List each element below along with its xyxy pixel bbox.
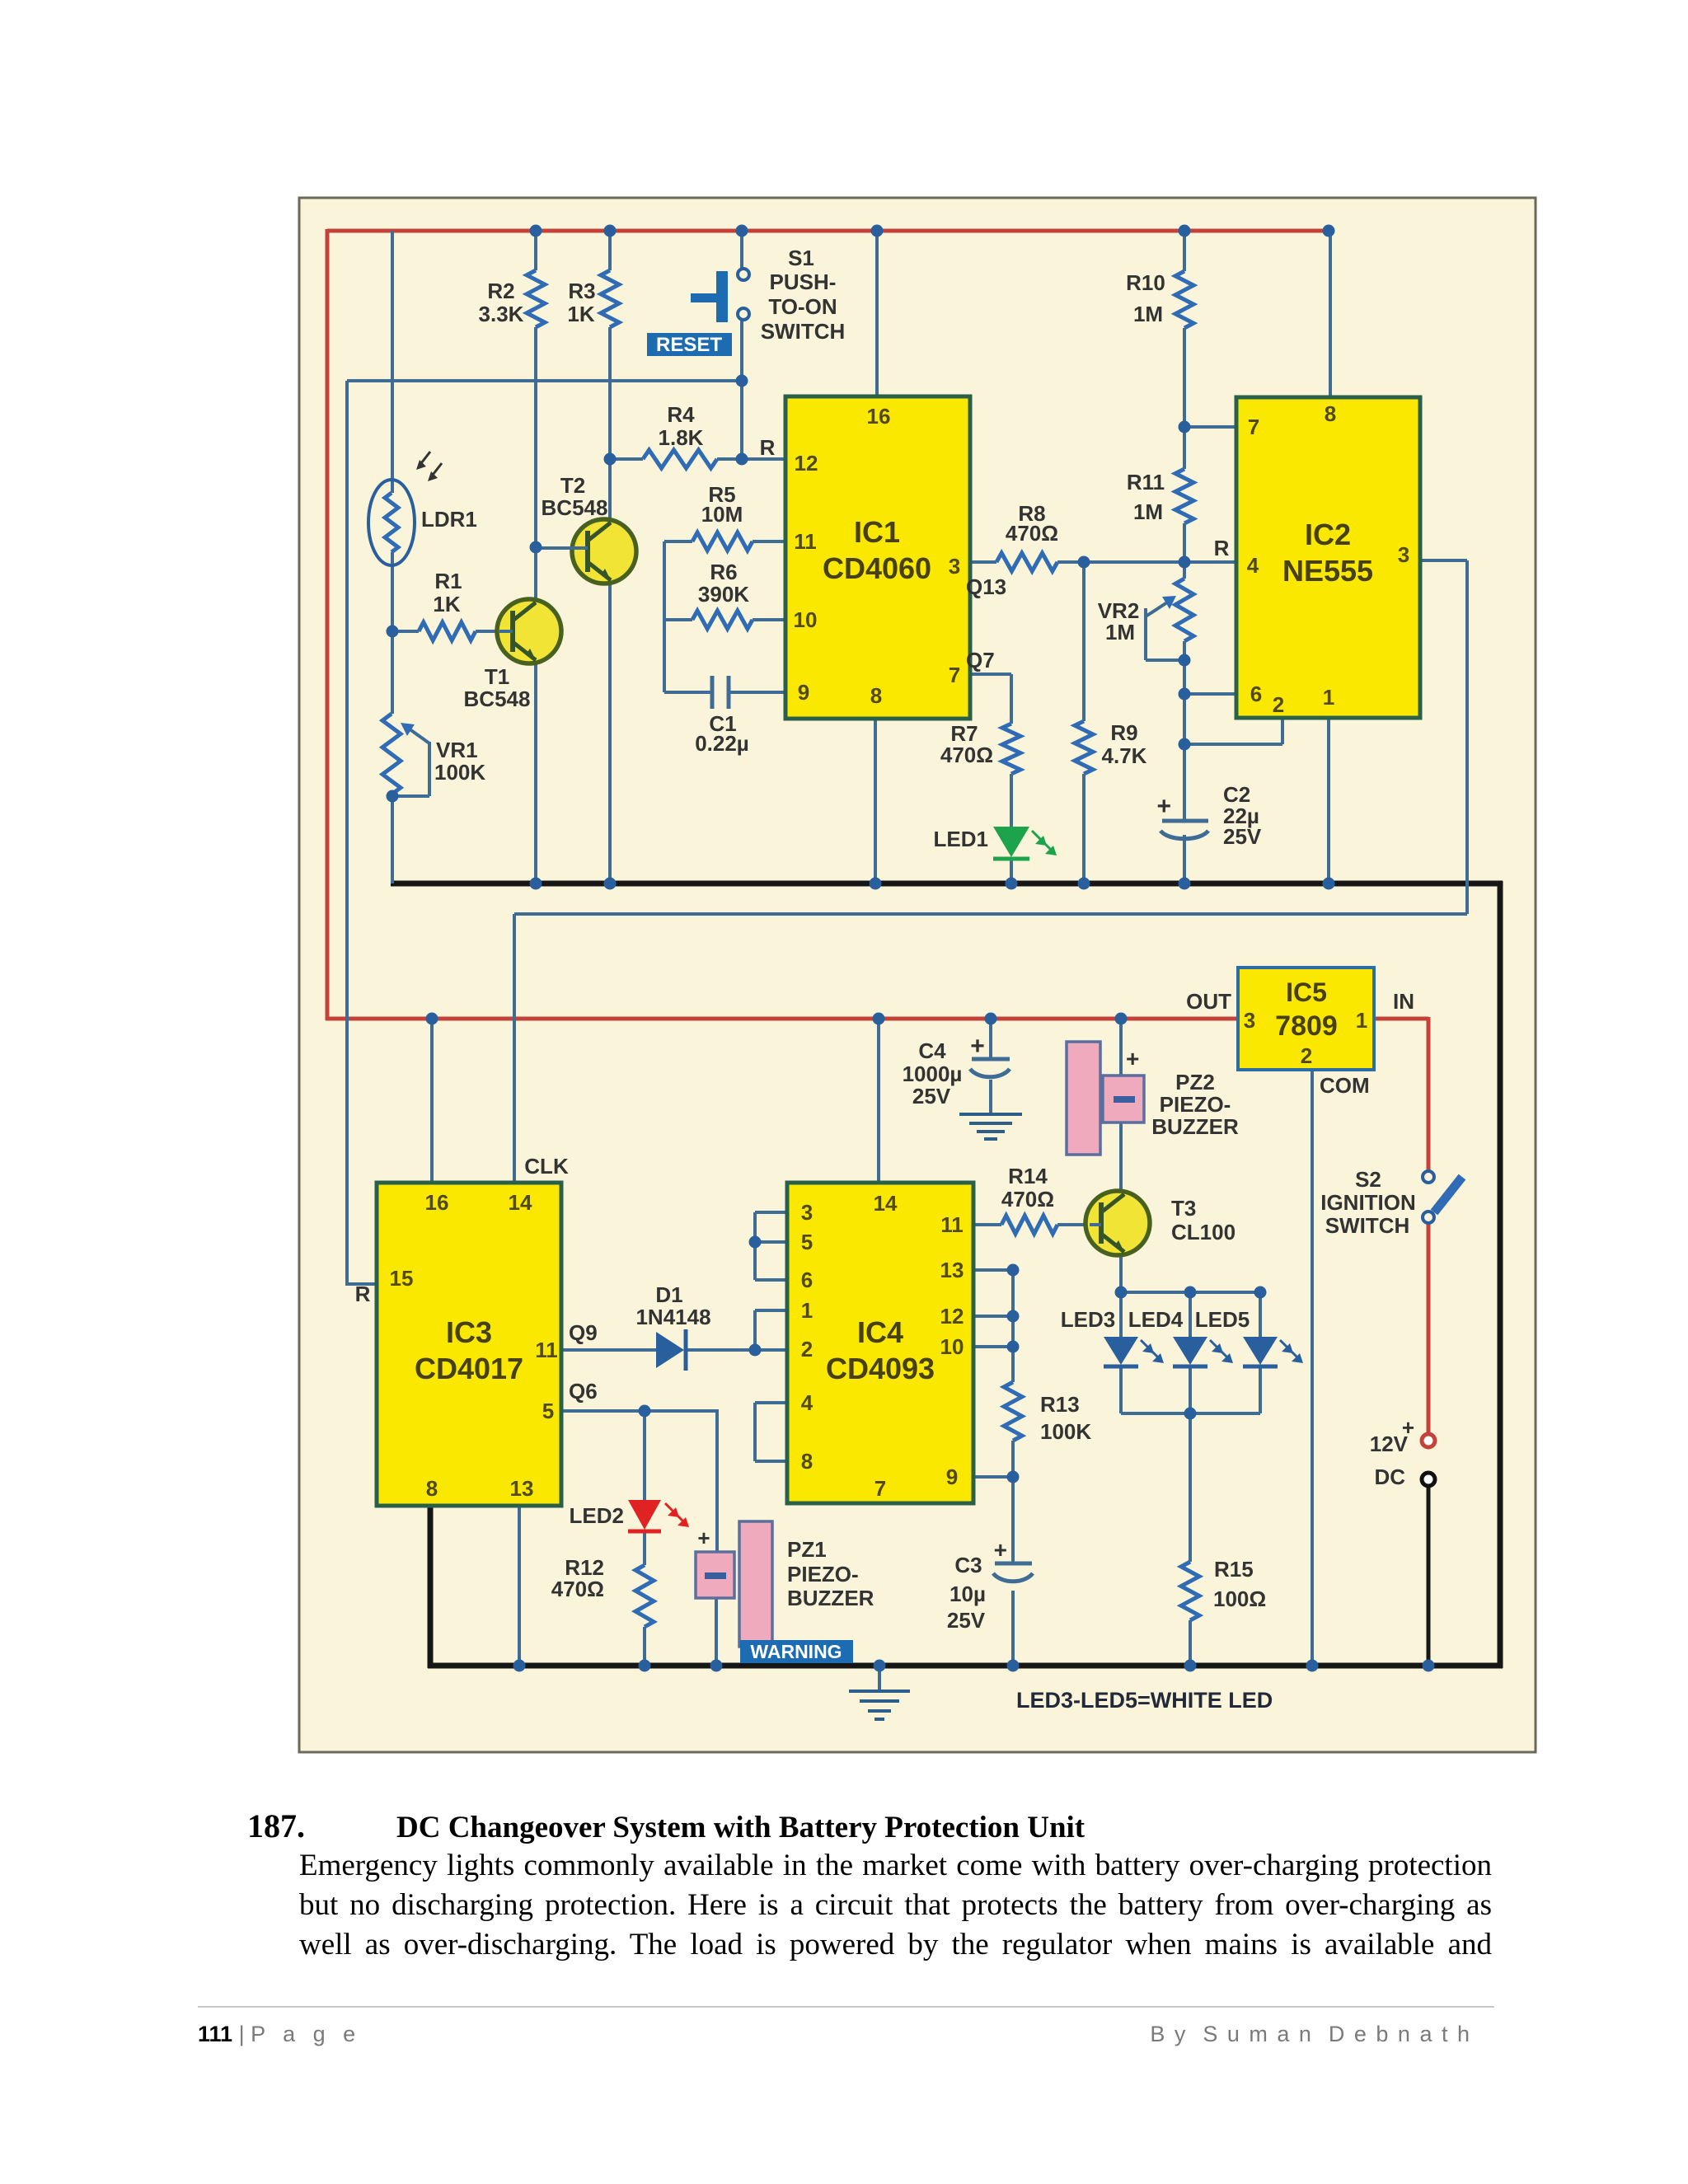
svg-text:390K: 390K — [698, 582, 749, 607]
svg-text:1K: 1K — [567, 302, 594, 326]
svg-text:25V: 25V — [947, 1608, 986, 1633]
svg-text:VR1: VR1 — [436, 738, 478, 762]
svg-text:BUZZER: BUZZER — [1151, 1114, 1239, 1139]
svg-text:TO-ON: TO-ON — [768, 294, 837, 319]
svg-text:1: 1 — [1356, 1008, 1367, 1033]
svg-text:R11: R11 — [1127, 470, 1165, 494]
svg-text:11: 11 — [940, 1212, 964, 1237]
svg-text:8: 8 — [870, 683, 882, 708]
svg-text:T1: T1 — [485, 664, 509, 689]
svg-text:S1: S1 — [788, 246, 814, 270]
svg-text:IGNITION: IGNITION — [1320, 1190, 1416, 1215]
svg-text:11: 11 — [535, 1338, 558, 1362]
svg-text:470Ω: 470Ω — [1001, 1187, 1054, 1212]
svg-text:R2: R2 — [487, 279, 514, 303]
svg-text:10: 10 — [794, 607, 818, 632]
svg-text:1: 1 — [801, 1298, 813, 1323]
svg-text:10M: 10M — [701, 502, 743, 527]
svg-text:13: 13 — [510, 1476, 534, 1501]
svg-text:R: R — [1214, 536, 1230, 560]
svg-text:14: 14 — [874, 1191, 898, 1216]
svg-text:S2: S2 — [1355, 1167, 1381, 1192]
svg-text:11: 11 — [794, 529, 817, 554]
svg-text:15: 15 — [390, 1266, 414, 1291]
svg-text:100K: 100K — [1040, 1419, 1091, 1444]
svg-text:5: 5 — [542, 1399, 554, 1423]
svg-text:470Ω: 470Ω — [1006, 521, 1058, 546]
svg-text:DC: DC — [1374, 1465, 1405, 1489]
svg-text:LED3-LED5=WHITE LED: LED3-LED5=WHITE LED — [1016, 1688, 1273, 1713]
svg-text:LED4: LED4 — [1128, 1307, 1184, 1332]
svg-text:Q9: Q9 — [569, 1320, 598, 1345]
svg-text:12: 12 — [795, 451, 818, 476]
svg-text:PZ2: PZ2 — [1175, 1070, 1215, 1094]
svg-text:C4: C4 — [918, 1038, 946, 1063]
svg-text:6: 6 — [801, 1268, 813, 1292]
svg-text:8: 8 — [1325, 401, 1336, 426]
svg-text:100K: 100K — [434, 760, 485, 785]
svg-text:CLK: CLK — [524, 1154, 569, 1179]
svg-text:1N4148: 1N4148 — [635, 1305, 710, 1329]
svg-text:BUZZER: BUZZER — [787, 1586, 874, 1610]
svg-text:25V: 25V — [1223, 824, 1262, 849]
svg-text:IC4: IC4 — [857, 1315, 903, 1349]
svg-text:IN: IN — [1393, 989, 1414, 1014]
svg-text:8: 8 — [426, 1476, 438, 1501]
svg-text:+: + — [970, 1033, 985, 1060]
svg-text:2: 2 — [801, 1337, 813, 1361]
svg-text:WARNING: WARNING — [750, 1641, 842, 1662]
svg-text:8: 8 — [801, 1449, 813, 1474]
svg-text:PIEZO-: PIEZO- — [1160, 1092, 1231, 1117]
svg-text:0.22µ: 0.22µ — [695, 731, 749, 756]
svg-text:R14: R14 — [1008, 1164, 1048, 1188]
svg-text:1.8K: 1.8K — [659, 425, 704, 450]
svg-text:CD4060: CD4060 — [823, 551, 931, 585]
svg-text:R: R — [355, 1282, 371, 1306]
svg-text:4.7K: 4.7K — [1102, 743, 1147, 768]
svg-text:3.3K: 3.3K — [479, 302, 524, 326]
svg-text:7809: 7809 — [1275, 1010, 1338, 1042]
svg-text:D1: D1 — [655, 1282, 682, 1307]
svg-text:PZ1: PZ1 — [787, 1537, 827, 1562]
svg-text:10: 10 — [940, 1334, 964, 1359]
svg-text:16: 16 — [425, 1190, 449, 1215]
svg-text:5: 5 — [801, 1230, 813, 1254]
svg-text:IC1: IC1 — [854, 515, 900, 549]
svg-text:LED3: LED3 — [1061, 1307, 1115, 1332]
svg-text:R6: R6 — [710, 560, 737, 584]
svg-text:7: 7 — [874, 1476, 886, 1501]
svg-text:SWITCH: SWITCH — [761, 319, 846, 344]
svg-text:+: + — [1126, 1046, 1139, 1071]
svg-text:R3: R3 — [568, 279, 595, 303]
svg-text:3: 3 — [949, 554, 960, 579]
svg-text:LED1: LED1 — [934, 827, 988, 851]
svg-text:CL100: CL100 — [1171, 1220, 1236, 1244]
svg-text:+: + — [994, 1537, 1007, 1563]
svg-text:SWITCH: SWITCH — [1325, 1213, 1410, 1238]
svg-text:OUT: OUT — [1186, 989, 1231, 1014]
svg-text:IC5: IC5 — [1286, 977, 1327, 1007]
svg-text:1000µ: 1000µ — [903, 1062, 963, 1086]
svg-text:100Ω: 100Ω — [1213, 1586, 1266, 1611]
svg-text:CD4093: CD4093 — [826, 1352, 935, 1385]
svg-text:+: + — [1156, 793, 1171, 820]
svg-text:1M: 1M — [1105, 620, 1135, 644]
svg-text:R10: R10 — [1126, 270, 1165, 295]
svg-text:PUSH-: PUSH- — [770, 269, 837, 294]
svg-text:2: 2 — [1273, 692, 1284, 717]
svg-text:PIEZO-: PIEZO- — [787, 1562, 859, 1586]
svg-text:R4: R4 — [667, 402, 695, 427]
svg-text:12: 12 — [940, 1304, 964, 1329]
svg-text:+: + — [697, 1526, 710, 1550]
svg-text:R: R — [760, 435, 776, 460]
svg-text:RESET: RESET — [656, 334, 722, 356]
svg-text:IC2: IC2 — [1305, 518, 1351, 551]
svg-text:9: 9 — [798, 680, 809, 705]
svg-text:13: 13 — [940, 1258, 964, 1282]
svg-text:12V: 12V — [1370, 1432, 1409, 1456]
svg-text:7: 7 — [1248, 415, 1259, 439]
svg-text:2: 2 — [1301, 1043, 1312, 1068]
svg-text:1M: 1M — [1133, 302, 1163, 326]
svg-text:4: 4 — [1247, 553, 1259, 578]
svg-text:R9: R9 — [1110, 720, 1137, 745]
svg-text:16: 16 — [867, 404, 891, 429]
svg-text:Q7: Q7 — [966, 648, 995, 673]
svg-text:25V: 25V — [912, 1084, 951, 1108]
svg-text:Q6: Q6 — [569, 1379, 598, 1404]
svg-text:3: 3 — [1244, 1008, 1255, 1033]
svg-text:BC548: BC548 — [464, 687, 531, 711]
svg-text:470Ω: 470Ω — [551, 1577, 604, 1601]
svg-text:LDR1: LDR1 — [421, 507, 477, 532]
svg-text:LED5: LED5 — [1195, 1307, 1250, 1332]
svg-text:NE555: NE555 — [1282, 554, 1373, 588]
svg-text:BC548: BC548 — [542, 495, 608, 520]
svg-text:1K: 1K — [433, 592, 460, 616]
svg-text:LED2: LED2 — [570, 1503, 624, 1528]
svg-text:6: 6 — [1250, 682, 1262, 706]
svg-text:R13: R13 — [1040, 1392, 1080, 1417]
svg-text:14: 14 — [509, 1190, 532, 1215]
svg-text:R15: R15 — [1214, 1557, 1254, 1582]
svg-text:Q13: Q13 — [966, 574, 1006, 599]
svg-text:IC3: IC3 — [446, 1315, 492, 1349]
svg-text:R1: R1 — [434, 569, 462, 593]
svg-text:470Ω: 470Ω — [940, 743, 993, 767]
svg-text:9: 9 — [946, 1465, 958, 1489]
svg-text:C3: C3 — [954, 1553, 982, 1577]
svg-text:7: 7 — [949, 663, 960, 687]
svg-text:1: 1 — [1323, 685, 1334, 710]
svg-text:COM: COM — [1320, 1073, 1370, 1098]
svg-text:1M: 1M — [1133, 499, 1163, 524]
svg-text:3: 3 — [1398, 542, 1409, 567]
svg-text:3: 3 — [801, 1200, 813, 1225]
svg-text:CD4017: CD4017 — [415, 1352, 523, 1385]
svg-text:T3: T3 — [1171, 1196, 1196, 1221]
svg-text:10µ: 10µ — [949, 1582, 986, 1606]
svg-text:T2: T2 — [560, 473, 585, 498]
svg-text:4: 4 — [801, 1390, 814, 1415]
